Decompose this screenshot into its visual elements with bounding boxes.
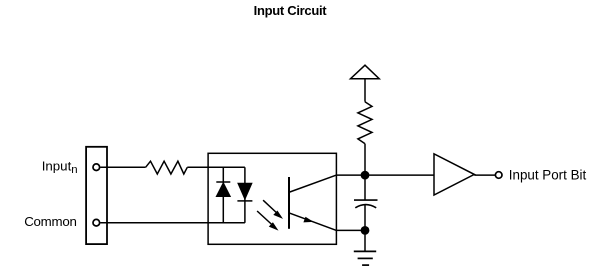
light arrow 2: [257, 211, 278, 231]
resistor R2 (pull-up): [358, 102, 372, 144]
output terminal circle: [495, 172, 502, 179]
terminal pin 2 (Common): [93, 219, 100, 226]
wire: resistor R1 to LED anode rail: [187, 166, 245, 168]
wire: buffer output: [474, 174, 495, 176]
svg-text:Input Port Bit: Input Port Bit: [509, 167, 587, 182]
capacitor C1: [354, 200, 378, 208]
resistor R1: [146, 161, 188, 174]
wire: node A down to capacitor C1: [364, 175, 366, 200]
light arrow 1: [263, 200, 283, 219]
phototransistor Q1 emitter with arrow: [290, 213, 337, 230]
wire: emitter to node B: [336, 229, 365, 231]
buffer U2: [434, 154, 474, 195]
wire: node A up to resistor R2: [364, 144, 366, 176]
wire: pin2 (Common) to LED cathode rail: [100, 222, 245, 224]
LED D1 (pointing up): [216, 182, 230, 197]
connector J1 body: [86, 147, 107, 244]
wire: collector node rail: [336, 174, 434, 176]
svg-text:Common: Common: [24, 214, 76, 229]
junction node B: [361, 226, 370, 235]
LED D2 (pointing down): [237, 183, 252, 201]
wire: node B to ground: [364, 230, 366, 251]
phototransistor Q1 base bar: [288, 177, 290, 229]
wire: resistor R2 to power: [364, 79, 366, 102]
svg-text:Input Circuit: Input Circuit: [254, 3, 328, 18]
optocoupler U1 package: [208, 153, 336, 244]
svg-text:Inputn: Inputn: [42, 158, 78, 176]
terminal pin 1 (Input): [93, 164, 100, 171]
wire: pin1 to resistor R1: [100, 166, 145, 168]
wire: capacitor C1 to node B: [364, 205, 366, 231]
ground: [354, 251, 376, 265]
wire: LED D2 branch: [244, 167, 246, 223]
phototransistor Q1 collector: [290, 175, 337, 192]
wire: LED D1 branch: [222, 167, 224, 223]
junction node A: [361, 171, 370, 180]
power symbol VCC: [351, 65, 380, 79]
